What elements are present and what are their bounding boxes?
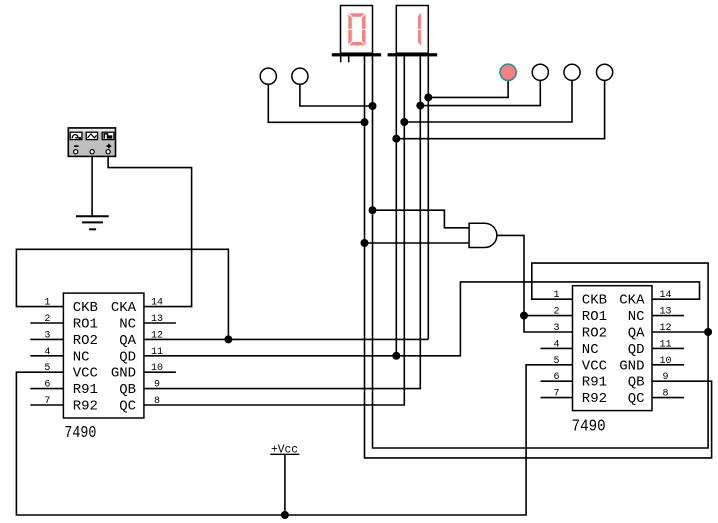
probe P3 (lit)	[500, 64, 516, 80]
wire probe P6 stem	[396, 80, 604, 138]
XFG1 plus label	[107, 145, 112, 147]
wire fn-gen common to ground	[91, 156, 93, 216]
svg-text:VCC: VCC	[73, 366, 98, 382]
wire U1 pin11 QD to U2 pin14 CKA	[144, 282, 700, 356]
pin stub U1 pin3 RO2	[30, 338, 63, 340]
wire fn-gen + output to U1 pin14 CKA	[108, 156, 192, 306]
junction AND top input tap	[369, 206, 377, 214]
junction on probe P2 net	[369, 102, 377, 110]
probe P2	[292, 68, 308, 84]
wire probe P1 stem	[268, 84, 364, 122]
svg-text:R92: R92	[582, 391, 607, 407]
wire DISP2 pin C vertical down to QB-right net	[365, 56, 712, 458]
svg-text:2: 2	[44, 314, 50, 325]
junction on probe P6 net	[392, 135, 400, 143]
junction on probe P3 net	[424, 93, 432, 101]
pin stub DISP2 pin A	[340, 56, 342, 62]
svg-text:3: 3	[44, 330, 50, 341]
pin stub U2 pin4 NC	[541, 347, 573, 349]
power symbol +Vcc	[270, 442, 299, 456]
svg-text:QB: QB	[628, 375, 645, 391]
junction U2 RO1 tap on AND output	[520, 312, 528, 320]
probe P6	[597, 64, 613, 80]
pin stub U2 pin6 R91	[541, 380, 573, 382]
svg-text:QA: QA	[119, 333, 136, 349]
seven-segment display DISP2 (left, shows 0)	[332, 6, 381, 57]
wire U2 pin2 RO1 to AND output vertical	[524, 315, 573, 317]
svg-text:7: 7	[553, 389, 559, 400]
svg-text:CKB: CKB	[582, 293, 607, 309]
wire U2 pin12 QA to right vertical	[652, 331, 708, 333]
DISP1 digit 1	[418, 13, 421, 29]
svg-text:11: 11	[151, 347, 163, 358]
svg-text:NC: NC	[628, 309, 645, 325]
svg-text:14: 14	[151, 298, 163, 309]
IC U1 7490 body	[44, 293, 163, 443]
probe P4	[532, 64, 548, 80]
svg-text:5: 5	[553, 356, 559, 367]
pin stub U1 pin4 NC	[30, 355, 63, 357]
wire AND gate U5 output to U2 pin3 RO2	[497, 235, 573, 332]
svg-text:6: 6	[553, 372, 559, 383]
pin stub U1 pin13 NC	[144, 322, 176, 324]
svg-text:R91: R91	[73, 382, 98, 398]
wire probe P2 stem	[300, 84, 373, 106]
pin stub U1 pin7 R92	[30, 404, 63, 406]
svg-text:1: 1	[44, 298, 50, 309]
svg-text:12: 12	[659, 323, 671, 334]
pin stub U1 pin2 RO1	[30, 322, 63, 324]
svg-text:8: 8	[662, 389, 668, 400]
junction on probe P5 net	[400, 118, 408, 126]
wire AND gate U5 top input from right-QA net	[373, 210, 470, 228]
pin stub U2 pin10 GND	[652, 364, 684, 366]
wire probe P4 stem	[420, 80, 540, 105]
svg-text:CKB: CKB	[73, 300, 98, 316]
svg-text:RO1: RO1	[582, 309, 607, 325]
svg-text:7490: 7490	[572, 418, 606, 437]
svg-text:4: 4	[553, 339, 559, 350]
junction on probe P1 net	[361, 118, 369, 126]
wire DISP1 pin C vertical to U1 pin9 QB	[144, 56, 420, 388]
svg-text:10: 10	[659, 356, 671, 367]
svg-text:6: 6	[44, 380, 50, 391]
XFG1 triangle button	[86, 132, 97, 139]
svg-text:7: 7	[44, 396, 50, 407]
wire DISP1 pin A vertical to U1 QD line	[395, 56, 397, 355]
wire DISP1 pin B vertical to U1 pin8 QC	[144, 56, 404, 405]
svg-text:QC: QC	[628, 391, 645, 407]
pin stub U2 pin11 QD	[652, 347, 684, 349]
pin stub U2 pin7 R92	[541, 397, 573, 399]
pin stub DISP2 pin B	[348, 56, 350, 62]
probe P5	[564, 64, 580, 80]
svg-text:NC: NC	[73, 349, 90, 365]
probe P1	[260, 68, 276, 84]
junction U2 QA tap on right vertical	[704, 328, 712, 336]
pin stub U1 pin6 R91	[30, 388, 63, 390]
wire DISP2 pin D vertical down to right QA net and U2 pin1 CKB	[373, 56, 709, 448]
junction U1 QA feedback tap	[224, 335, 232, 343]
svg-text:9: 9	[154, 380, 160, 391]
pin stub U1 pin10 GND	[144, 371, 176, 373]
svg-text:1: 1	[553, 290, 559, 301]
svg-text:11: 11	[659, 339, 671, 350]
wire DISP1 pin D vertical	[427, 56, 429, 339]
wire probe P3 stem	[428, 80, 508, 97]
pin stub U2 pin8 QC	[652, 397, 684, 399]
svg-text:NC: NC	[582, 342, 599, 358]
wire AND gate U5 bottom input from right-QB net	[365, 242, 470, 244]
ground symbol GND1	[76, 216, 109, 229]
svg-text:NC: NC	[119, 317, 136, 333]
XFG1 square button (selected)	[102, 132, 114, 139]
wire probe P5 stem	[404, 80, 572, 122]
svg-text:QC: QC	[119, 399, 136, 415]
function generator XFG1 body	[68, 128, 115, 156]
svg-text:GND: GND	[619, 358, 644, 374]
svg-text:QA: QA	[628, 326, 645, 342]
svg-text:R91: R91	[582, 375, 607, 391]
svg-text:QD: QD	[119, 349, 136, 365]
junction U1 QD to DISP1 pin A tap	[392, 352, 400, 360]
svg-text:4: 4	[44, 347, 50, 358]
svg-text:3: 3	[553, 323, 559, 334]
svg-text:14: 14	[659, 290, 671, 301]
junction +Vcc tap on supply rail	[281, 511, 289, 519]
svg-text:QD: QD	[628, 342, 645, 358]
wire U1 pin12 QA to display DISP1 pin D	[144, 338, 428, 340]
svg-text:13: 13	[659, 307, 671, 318]
svg-text:9: 9	[662, 372, 668, 383]
svg-text:RO1: RO1	[73, 317, 98, 333]
svg-text:10: 10	[151, 363, 163, 374]
svg-text:VCC: VCC	[582, 358, 607, 374]
svg-text:12: 12	[151, 330, 163, 341]
svg-text:QB: QB	[119, 382, 136, 398]
junction on probe P4 net	[416, 102, 424, 110]
XFG1 sine button	[70, 132, 82, 139]
svg-text:5: 5	[44, 363, 50, 374]
seven-segment display DISP1 (right, shows 1)	[388, 6, 438, 57]
wire U1 pin1 CKB feedback from QA node	[16, 249, 228, 339]
XFG1 minus label	[74, 145, 78, 147]
svg-text:2: 2	[553, 307, 559, 318]
svg-text:RO2: RO2	[582, 326, 607, 342]
pin stub U2 pin13 NC	[652, 315, 684, 317]
svg-text:R92: R92	[73, 399, 98, 415]
XFG1 terminals	[74, 150, 78, 154]
svg-text:GND: GND	[111, 366, 136, 382]
svg-text:CKA: CKA	[111, 300, 137, 316]
wire +Vcc symbol stem	[284, 454, 286, 515]
wire U1 pin5 VCC bottom supply rail to U2 pin5 VCC	[16, 365, 572, 515]
DISP2 digit 0	[348, 13, 365, 45]
svg-text:13: 13	[151, 314, 163, 325]
junction AND bottom input tap	[361, 239, 369, 247]
IC U2 7490 body	[553, 286, 671, 437]
svg-text:RO2: RO2	[73, 333, 98, 349]
svg-text:7490: 7490	[64, 424, 96, 443]
svg-text:CKA: CKA	[619, 293, 645, 309]
svg-text:8: 8	[154, 396, 160, 407]
AND gate U5	[469, 223, 497, 247]
